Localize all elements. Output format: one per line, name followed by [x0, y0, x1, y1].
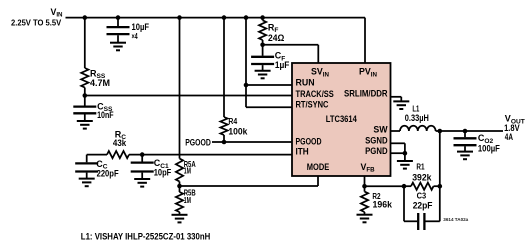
- wire feedback drop: [439, 131, 441, 186]
- svg-text:ITH: ITH: [296, 147, 309, 157]
- wire VIN top rail: [66, 17, 366, 19]
- note inductor part number: [81, 231, 211, 241]
- label CO2: [478, 133, 500, 153]
- wire R2 top lead: [364, 186, 366, 191]
- label R2: [372, 191, 393, 210]
- wire RSS top lead: [84, 18, 86, 68]
- svg-text:10pF: 10pF: [154, 168, 172, 178]
- svg-text:RT/SYNC: RT/SYNC: [296, 100, 330, 110]
- inductor L1 0.33uH: [400, 126, 436, 131]
- node SVIN filter junction: [260, 43, 265, 48]
- node junction on rail at RF: [260, 15, 265, 20]
- resistor R2 196k: [361, 192, 368, 212]
- svg-text:R4: R4: [228, 116, 237, 126]
- label CC: [96, 159, 119, 178]
- node CC1 junction: [140, 152, 145, 157]
- node R1 left junction: [402, 184, 407, 189]
- ground below R2: [357, 215, 373, 223]
- ground below CO2: [457, 152, 473, 160]
- wire RF bottom lead: [262, 40, 264, 56]
- op IC U1 LTC3614 body: [292, 63, 391, 176]
- svg-text:1µF: 1µF: [275, 60, 290, 70]
- capacitor CIN 10uF x4: [107, 27, 130, 42]
- wire R2 bottom lead: [364, 212, 366, 215]
- label R5B: [184, 188, 196, 205]
- wire R5B bottom lead: [179, 212, 181, 215]
- label R1: [412, 161, 432, 182]
- svg-text:3614 TA02a: 3614 TA02a: [443, 217, 468, 222]
- node PGND junction: [403, 151, 408, 156]
- wire PGND stub: [391, 152, 405, 154]
- svg-text:220pF: 220pF: [97, 168, 119, 178]
- wire SVIN: [263, 45, 319, 63]
- wire R4 bottom lead: [223, 135, 225, 142]
- wire SRLIM/DDR stub: [391, 97, 402, 101]
- pin label SW: [373, 125, 388, 135]
- label CSS: [97, 102, 114, 121]
- label LTC3614: [326, 114, 357, 124]
- ground at SRLIM/DDR: [393, 101, 409, 109]
- wire RUN branch vertical: [245, 18, 247, 108]
- wire ITH: [87, 154, 292, 156]
- svg-text:10nF: 10nF: [97, 110, 114, 120]
- wire SW lead: [391, 130, 401, 132]
- label R4: [228, 116, 248, 137]
- svg-text:43k: 43k: [113, 138, 127, 148]
- svg-text:1M: 1M: [184, 195, 191, 205]
- svg-text:TRACK/SS: TRACK/SS: [296, 89, 334, 99]
- wire VFB lead: [364, 176, 366, 186]
- pin label PVIN: [359, 67, 377, 79]
- pin label SVIN: [311, 67, 329, 79]
- pin label TRACK/SS: [296, 89, 334, 99]
- resistor RF 24ohm: [259, 20, 266, 40]
- wire CIN lead: [117, 18, 119, 27]
- svg-text:4A: 4A: [505, 132, 514, 142]
- wire RUN: [246, 84, 292, 86]
- wire R5A top lead: [179, 18, 181, 159]
- capacitor CC1 10pF: [131, 155, 154, 179]
- svg-text:100k: 100k: [228, 127, 248, 137]
- note TA number: [443, 217, 468, 222]
- ground below CIN: [110, 43, 126, 51]
- svg-text:196k: 196k: [373, 200, 393, 210]
- svg-text:4.7M: 4.7M: [90, 78, 110, 88]
- node junction on rail at RSS: [83, 15, 88, 20]
- net label VIN input supply: [11, 7, 63, 28]
- wire RF top lead: [262, 18, 264, 21]
- pin label MODE: [307, 162, 330, 172]
- wire MODE net: [180, 176, 319, 186]
- wire TRACK/SS: [85, 95, 292, 97]
- pin label RUN: [296, 78, 315, 88]
- ground below CSS: [77, 121, 93, 129]
- svg-text:MODE: MODE: [307, 162, 330, 172]
- label RF: [268, 22, 284, 43]
- wire PGOOD: [212, 141, 292, 143]
- node MODE divider junction: [177, 184, 182, 189]
- svg-text:SRLIM/DDR: SRLIM/DDR: [344, 88, 388, 98]
- wire R1 left lead: [404, 185, 411, 187]
- label C3: [413, 191, 433, 211]
- label R5A: [184, 159, 196, 176]
- svg-text:L1: VISHAY IHLP-2525CZ-01 330n: L1: VISHAY IHLP-2525CZ-01 330nH: [81, 231, 211, 241]
- pin label PGND: [365, 146, 388, 156]
- capacitor CF 1uF: [251, 57, 274, 71]
- svg-text:24Ω: 24Ω: [268, 33, 284, 43]
- capacitor CSS 10nF: [73, 107, 96, 121]
- node junction on rail at RUN branch: [244, 15, 249, 20]
- node R1 right junction: [438, 184, 443, 189]
- wire VFB to R1: [365, 185, 405, 187]
- node PGOOD junction: [222, 140, 227, 145]
- label L1: [405, 104, 429, 123]
- svg-text:×4: ×4: [132, 32, 139, 41]
- label RC: [113, 129, 127, 148]
- resistor RC 43k: [107, 151, 129, 158]
- pin label ITH: [296, 147, 309, 157]
- svg-text:C3: C3: [417, 191, 427, 201]
- wire RT/SYNC: [246, 106, 292, 108]
- node VFB junction: [362, 184, 367, 189]
- ground below CC: [79, 179, 95, 187]
- wire RSS bottom lead: [84, 88, 86, 106]
- capacitor C3 22pF loop: [404, 186, 440, 230]
- label RSS: [90, 68, 110, 88]
- svg-text:PGOOD: PGOOD: [185, 138, 211, 148]
- svg-text:2.25V TO 5.5V: 2.25V TO 5.5V: [11, 19, 62, 28]
- svg-text:LTC3614: LTC3614: [326, 114, 357, 124]
- ground at PGND: [397, 161, 413, 169]
- svg-text:22pF: 22pF: [413, 201, 433, 211]
- resistor RSS 4.7M: [81, 68, 88, 88]
- node TRACK/SS junction: [83, 93, 88, 98]
- wire SGND stub: [391, 143, 405, 161]
- node RUN junction: [244, 83, 249, 88]
- svg-text:0.33µH: 0.33µH: [405, 113, 429, 123]
- wire R5A-R5B junction lead: [179, 182, 181, 193]
- net label VOUT: [504, 114, 525, 142]
- node feedback junction on VOUT rail: [438, 129, 443, 134]
- label 10uF x4: [132, 22, 150, 41]
- svg-text:PGOOD: PGOOD: [296, 136, 322, 146]
- label CF: [275, 51, 290, 70]
- resistor R1 392k: [411, 183, 434, 190]
- svg-text:SGND: SGND: [365, 136, 388, 146]
- pin label SRLIM/DDR: [344, 88, 388, 98]
- wire VOUT rail: [436, 130, 503, 132]
- svg-text:100µF: 100µF: [478, 144, 500, 154]
- node junction on rail at R5A: [177, 15, 182, 20]
- pin label PGOOD: [296, 136, 322, 146]
- resistor R5B 1M: [176, 192, 183, 212]
- svg-text:10µF: 10µF: [132, 22, 150, 32]
- pin label SGND: [365, 136, 388, 146]
- ground below CC1: [134, 179, 150, 187]
- svg-text:392k: 392k: [412, 172, 432, 182]
- wire R1 right lead: [434, 185, 440, 187]
- capacitor CO2 100uF: [454, 131, 477, 151]
- resistor R4 100k: [220, 117, 227, 135]
- svg-text:1M: 1M: [184, 166, 191, 176]
- svg-text:PGND: PGND: [365, 146, 388, 156]
- label CC1: [154, 158, 172, 178]
- node CO2 junction: [463, 129, 468, 134]
- wire PVIN drop: [364, 18, 366, 63]
- ground below CF: [255, 71, 271, 79]
- pin label VFB: [361, 162, 376, 174]
- net label PGOOD: [185, 138, 211, 148]
- resistor R5A 1M: [176, 159, 183, 182]
- pin label RT/SYNC: [296, 100, 330, 110]
- node junction on rail at CIN: [116, 15, 121, 20]
- ground below R5B: [172, 215, 188, 223]
- svg-text:SW: SW: [373, 125, 388, 135]
- capacitor CC 220pF: [75, 155, 98, 179]
- svg-text:R1: R1: [416, 161, 424, 171]
- wire R4 top lead: [223, 18, 225, 117]
- node junction on rail at R4: [222, 15, 227, 20]
- svg-text:RUN: RUN: [296, 78, 315, 88]
